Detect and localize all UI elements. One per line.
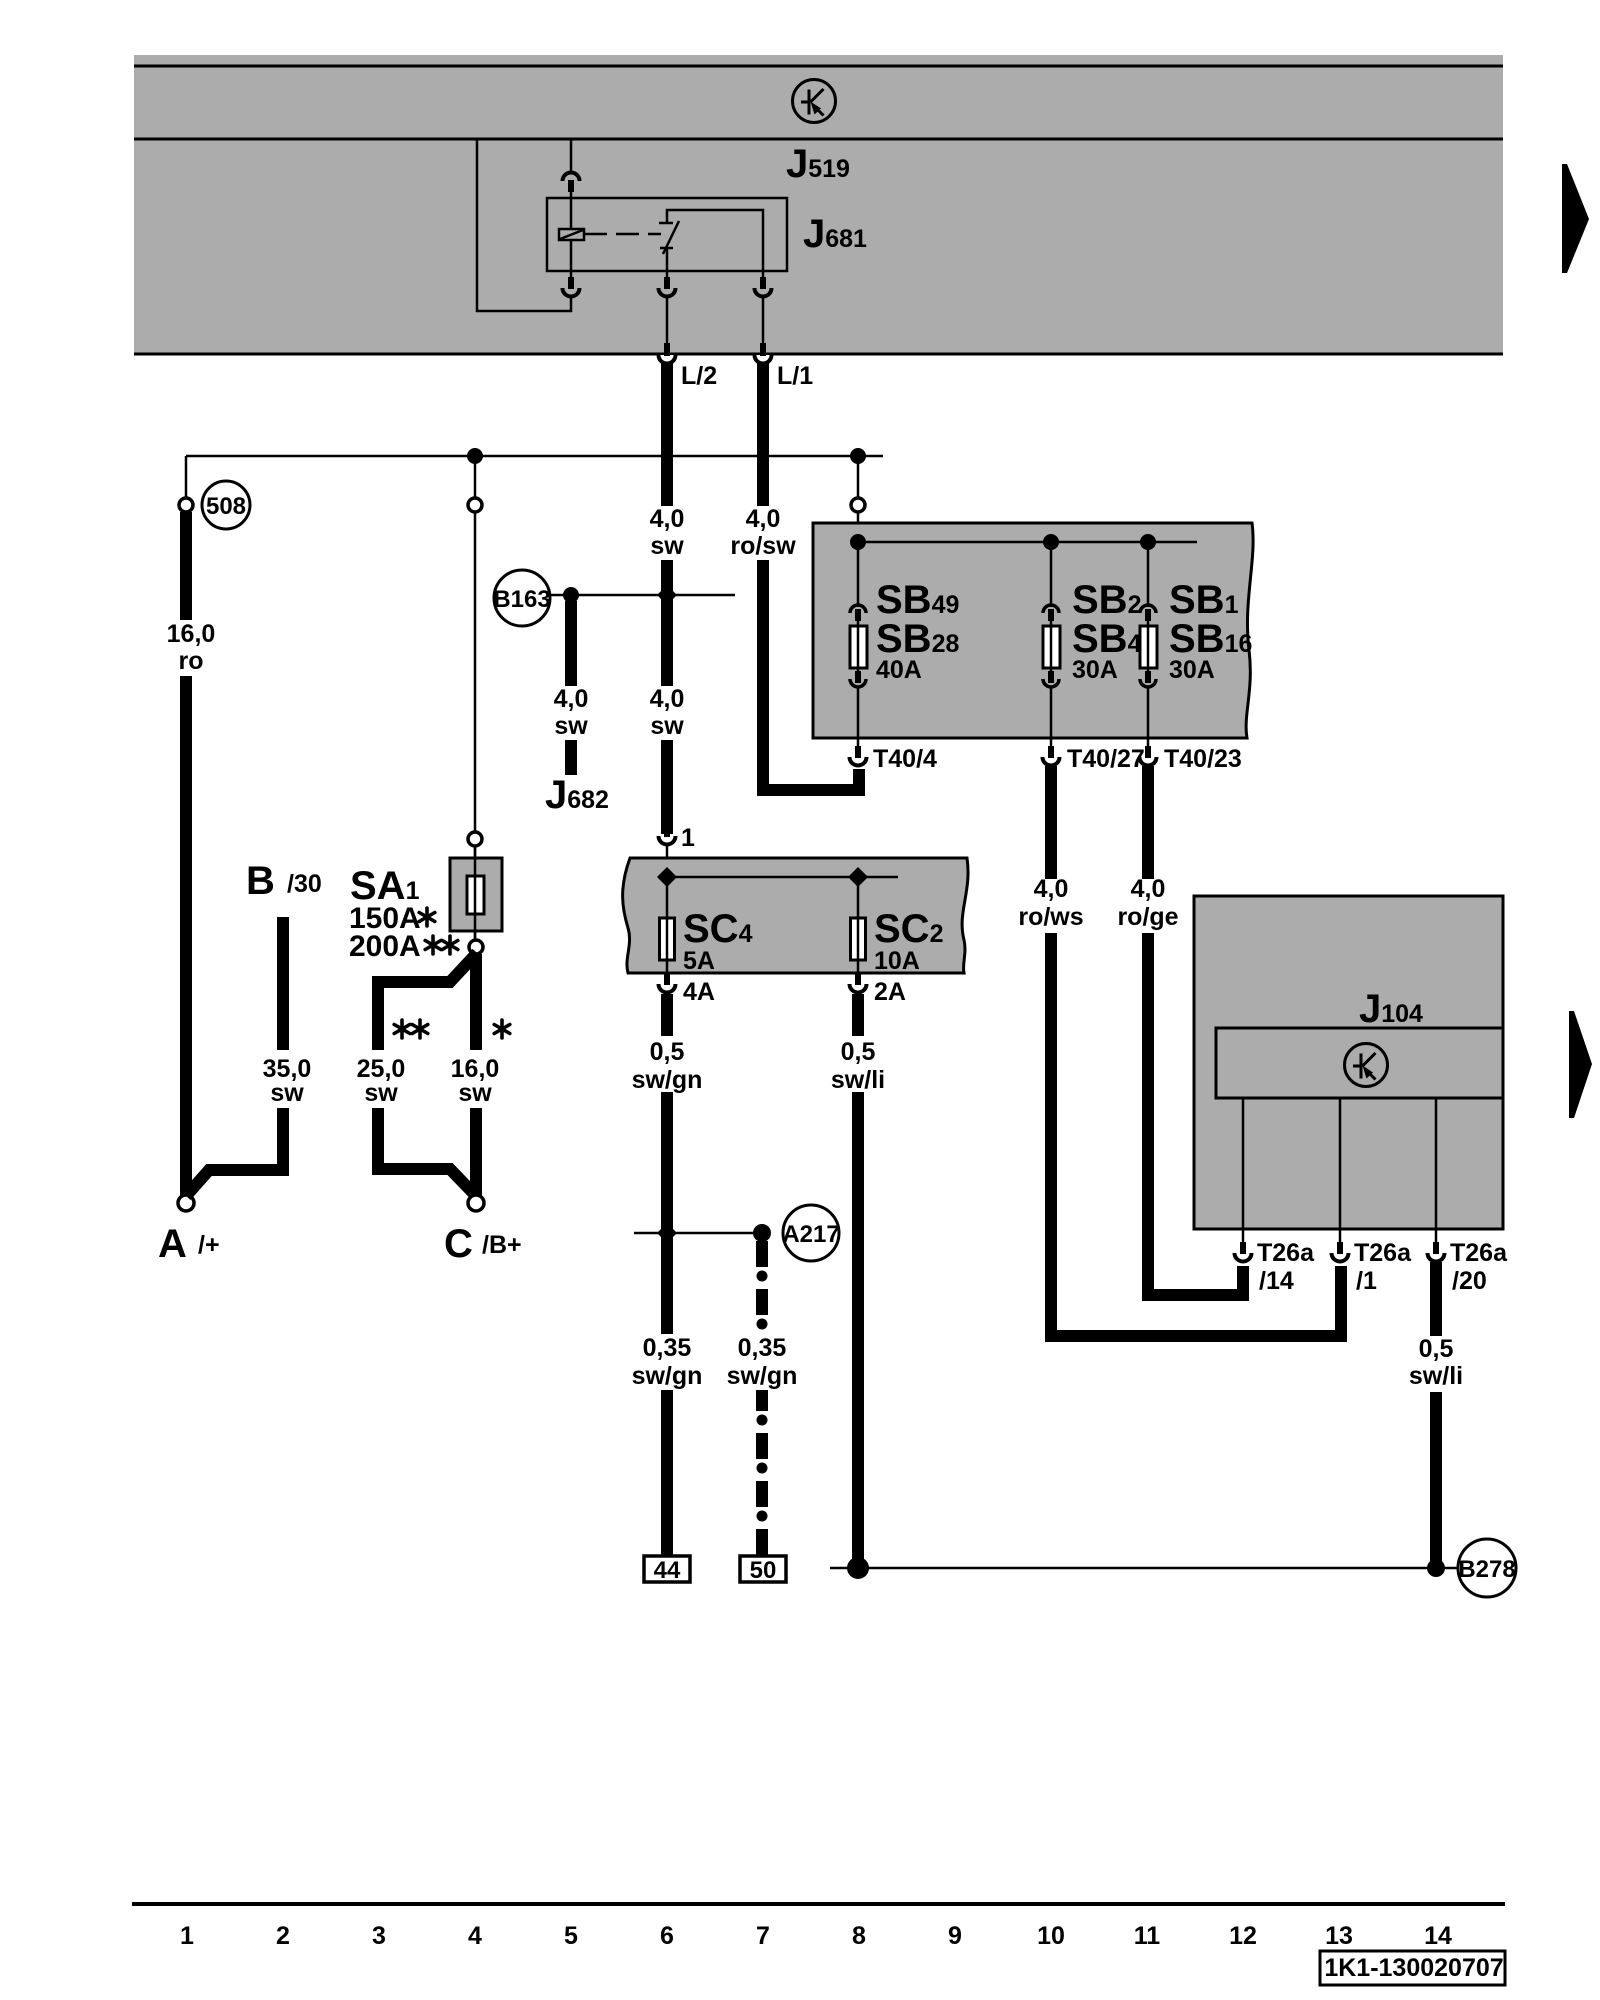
svg-text:4,0: 4,0 bbox=[650, 505, 685, 533]
diamond junction on sw/gn wire bbox=[657, 1223, 677, 1243]
svg-text:/20: /20 bbox=[1452, 1267, 1487, 1295]
svg-text:4: 4 bbox=[468, 1922, 482, 1950]
svg-text:/B+: /B+ bbox=[482, 1231, 522, 1259]
direction arrow right top bbox=[1562, 164, 1589, 273]
ground line to B278 bbox=[830, 1567, 1458, 1570]
terminal C circle bbox=[468, 1195, 484, 1211]
node 1 connector at SC box bbox=[659, 825, 676, 845]
connector T26a/20 bbox=[1435, 1229, 1438, 1242]
diagram code box bbox=[1320, 1951, 1505, 1985]
svg-text:B: B bbox=[246, 859, 275, 903]
fuse SB2/SB4 30A bbox=[1043, 542, 1060, 738]
svg-text:4A: 4A bbox=[683, 978, 715, 1006]
label 16,0 sw bbox=[445, 1050, 507, 1108]
svg-text:T26a: T26a bbox=[1450, 1239, 1508, 1267]
relay coil-switch dashed link bbox=[584, 233, 661, 236]
svg-text:sw: sw bbox=[458, 1079, 492, 1107]
svg-text:B278: B278 bbox=[1458, 1556, 1515, 1583]
svg-text:5A: 5A bbox=[683, 947, 715, 975]
svg-text:5: 5 bbox=[564, 1922, 578, 1950]
terminal box 50 bbox=[740, 1556, 786, 1582]
svg-text:A217: A217 bbox=[782, 1221, 839, 1248]
pre-fuse bus wire bbox=[186, 455, 883, 458]
label 25,0 sw bbox=[350, 1050, 412, 1108]
terminal A circle bbox=[178, 1195, 194, 1211]
svg-text:30A: 30A bbox=[1072, 656, 1118, 684]
svg-text:2A: 2A bbox=[874, 978, 906, 1006]
junction dot SB2 bbox=[1043, 534, 1059, 550]
label 4,0 ro/ge bbox=[1113, 875, 1183, 933]
coil to box bottom bbox=[570, 240, 573, 271]
svg-text:sw: sw bbox=[270, 1079, 304, 1107]
svg-text:200A: 200A bbox=[349, 930, 421, 963]
J104 inner strip bbox=[1216, 1028, 1503, 1098]
label 35,0 sw bbox=[256, 1050, 318, 1108]
label 16,0 ro bbox=[160, 620, 218, 676]
junction dot bbox=[467, 448, 483, 464]
wire: switch fixed contact loop to L/1 bbox=[667, 210, 763, 271]
svg-text:T40/27: T40/27 bbox=[1067, 745, 1145, 773]
label 4,0 sw (L/2 upper) bbox=[641, 505, 693, 560]
relay switch bbox=[659, 221, 679, 271]
wire: coil feed from band line bbox=[570, 139, 573, 172]
connector T40/23 bbox=[1147, 738, 1150, 746]
label 0,5 sw/gn bbox=[630, 1036, 704, 1094]
svg-text:sw/li: sw/li bbox=[1409, 1362, 1463, 1390]
svg-text:A: A bbox=[158, 1222, 187, 1266]
label 4,0 sw (L/2 lower) bbox=[641, 685, 693, 740]
label 0,5 sw/li bbox=[826, 1036, 892, 1094]
svg-text:40A: 40A bbox=[876, 656, 922, 684]
svg-text:1: 1 bbox=[180, 1922, 194, 1950]
svg-text:11: 11 bbox=[1134, 1922, 1161, 1950]
svg-text:9: 9 bbox=[948, 1922, 962, 1950]
wire L/2 thick (4,0 sw) bbox=[661, 362, 673, 834]
svg-text:T26a: T26a bbox=[1257, 1239, 1315, 1267]
connector T40/4 bbox=[857, 738, 860, 746]
svg-text:T26a: T26a bbox=[1354, 1239, 1412, 1267]
svg-text:sw: sw bbox=[650, 532, 684, 560]
junction dot bbox=[850, 448, 866, 464]
wire L/1 thick (4,0 ro/sw) down and to T40/4 bbox=[763, 362, 859, 790]
svg-text:sw: sw bbox=[364, 1079, 398, 1107]
connector below relay box (L/2) bbox=[666, 271, 669, 280]
open terminal circle 508 wire bbox=[179, 498, 193, 512]
label * bbox=[494, 1020, 510, 1038]
svg-text:4,0: 4,0 bbox=[650, 685, 685, 713]
fuse SC4 bbox=[666, 877, 669, 973]
svg-text:0,5: 0,5 bbox=[650, 1038, 685, 1066]
fuse box SB (gray, torn right edge) bbox=[813, 523, 1253, 738]
svg-text:sw/gn: sw/gn bbox=[632, 1066, 703, 1094]
label circle B278 bbox=[1458, 1539, 1516, 1597]
connector T26a/1 bbox=[1339, 1229, 1342, 1242]
svg-text:T40/23: T40/23 bbox=[1164, 745, 1242, 773]
dashed wire 0,35 sw/gn to 50 bbox=[756, 1241, 768, 1556]
connector T40/27 bbox=[1050, 738, 1053, 746]
label circle 508 bbox=[202, 481, 250, 529]
connector T26a/14 bbox=[1242, 1229, 1245, 1242]
fuse box SC (gray, torn edges) bbox=[623, 858, 968, 973]
fuse SA1 element bbox=[467, 876, 484, 914]
svg-text:16,0: 16,0 bbox=[167, 620, 216, 648]
svg-text:13: 13 bbox=[1325, 1922, 1353, 1950]
fuse SB1/SB16 30A bbox=[1140, 542, 1157, 738]
svg-text:sw: sw bbox=[650, 712, 684, 740]
svg-text:30A: 30A bbox=[1169, 656, 1215, 684]
svg-text:/+: /+ bbox=[198, 1231, 220, 1259]
connector below relay box (coil return) bbox=[570, 271, 573, 280]
svg-text:/30: /30 bbox=[287, 870, 322, 898]
A217 junction line bbox=[634, 1232, 760, 1235]
direction arrow right at J104 bbox=[1569, 1011, 1592, 1118]
wire 16,0 sw (*) bbox=[470, 954, 482, 1196]
svg-text:ro/ge: ro/ge bbox=[1117, 903, 1178, 931]
label circle B163 bbox=[494, 570, 550, 626]
junction dot SB49 bbox=[850, 534, 866, 550]
label 4,0 ro/sw (L/1) bbox=[730, 505, 797, 560]
junction dot sw/li bbox=[847, 1557, 869, 1579]
wire 0,5 sw/gn bbox=[661, 994, 673, 1556]
svg-text:sw: sw bbox=[554, 712, 588, 740]
diamond junction on L/2 wire bbox=[657, 585, 677, 605]
relay J681 box bbox=[547, 198, 787, 271]
svg-text:4,0: 4,0 bbox=[746, 505, 781, 533]
label 0,35 sw/gn (right) bbox=[723, 1334, 801, 1390]
diamond junction SC2 bbox=[848, 867, 868, 887]
band exit connector L/1 bbox=[755, 343, 772, 364]
svg-text:508: 508 bbox=[206, 493, 246, 520]
J104 internal leads bbox=[1242, 1098, 1245, 1229]
svg-text:0,5: 0,5 bbox=[1419, 1335, 1454, 1363]
wire 16,0 ro (battery) bbox=[180, 512, 192, 1196]
svg-text:/14: /14 bbox=[1259, 1267, 1294, 1295]
junction dot dashed wire bbox=[753, 1224, 771, 1242]
svg-text:C: C bbox=[444, 1222, 473, 1266]
svg-text:ro: ro bbox=[179, 647, 204, 675]
label 4,0 ro/ws bbox=[1016, 875, 1086, 933]
K symbol J104 bbox=[1345, 1044, 1388, 1087]
wire 4,0 ro/ge : T40/23 to T26a/14 bbox=[1148, 766, 1243, 1295]
svg-text:L/2: L/2 bbox=[681, 362, 717, 390]
band exit connector L/2 bbox=[659, 343, 676, 364]
svg-text:sw/li: sw/li bbox=[831, 1066, 885, 1094]
svg-text:0,35: 0,35 bbox=[738, 1334, 787, 1362]
fuse SA1 box bbox=[450, 858, 502, 931]
svg-text:ro/sw: ro/sw bbox=[730, 532, 796, 560]
svg-text:4,0: 4,0 bbox=[554, 685, 589, 713]
control unit band J519 (gray) bbox=[134, 55, 1503, 355]
connector coil top bbox=[563, 173, 580, 193]
track number rule bbox=[132, 1902, 1505, 1906]
svg-text:sw/gn: sw/gn bbox=[727, 1362, 798, 1390]
svg-text:sw/gn: sw/gn bbox=[632, 1362, 703, 1390]
svg-text:1K1-130020707: 1K1-130020707 bbox=[1324, 1954, 1503, 1982]
wire 25,0 sw (**) bbox=[378, 953, 477, 1197]
label 0,5 sw/li bbox=[1404, 1335, 1470, 1392]
svg-text:14: 14 bbox=[1424, 1922, 1452, 1950]
svg-text:8: 8 bbox=[852, 1922, 866, 1950]
svg-text:12: 12 bbox=[1229, 1922, 1257, 1950]
wire 35,0 sw from B/30 bbox=[186, 917, 283, 1196]
track numbers bbox=[180, 1922, 1452, 1950]
svg-text:50: 50 bbox=[750, 1557, 777, 1584]
svg-text:L/1: L/1 bbox=[777, 362, 813, 390]
junction dot J682 stub bbox=[563, 587, 579, 603]
connector 2A bbox=[850, 973, 867, 993]
wire 0,5 sw/li from T26a/20 bbox=[1430, 1262, 1442, 1566]
wire stub J682 (4,0 sw) bbox=[565, 601, 577, 775]
fuse SB49/SB28 40A bbox=[850, 542, 867, 738]
relay coil bbox=[559, 229, 584, 240]
B163 junction line bbox=[550, 594, 735, 597]
connector below relay box (L/1) bbox=[762, 271, 765, 280]
label circle A217 bbox=[783, 1205, 839, 1261]
wire 0,5 sw/li bbox=[852, 994, 864, 1566]
svg-text:/1: /1 bbox=[1356, 1267, 1377, 1295]
SB bus bbox=[858, 541, 1197, 544]
svg-text:4,0: 4,0 bbox=[1131, 875, 1166, 903]
svg-text:10: 10 bbox=[1037, 1922, 1065, 1950]
svg-text:7: 7 bbox=[756, 1922, 770, 1950]
terminal box 44 bbox=[644, 1556, 690, 1582]
svg-text:2: 2 bbox=[276, 1922, 290, 1950]
svg-text:3: 3 bbox=[372, 1922, 386, 1950]
control unit J104 box bbox=[1194, 896, 1503, 1229]
wire: coil return loop to band line bbox=[477, 139, 571, 311]
label 4,0 sw (J682) bbox=[545, 685, 597, 740]
svg-text:4,0: 4,0 bbox=[1034, 875, 1069, 903]
wire: SA1 feed from bus bbox=[474, 456, 477, 498]
svg-text:B163: B163 bbox=[493, 586, 550, 613]
svg-text:ro/ws: ro/ws bbox=[1018, 903, 1083, 931]
svg-text:0,35: 0,35 bbox=[643, 1334, 692, 1362]
junction dot right sw/li bbox=[1427, 1559, 1445, 1577]
junction dot SB1 bbox=[1140, 534, 1156, 550]
svg-text:T40/4: T40/4 bbox=[873, 745, 937, 773]
SC bus bbox=[663, 876, 898, 879]
K symbol (potential distribution) in band bbox=[793, 80, 836, 123]
svg-text:1: 1 bbox=[681, 824, 695, 852]
svg-text:44: 44 bbox=[654, 1557, 681, 1584]
wire 4,0 ro/ws : T40/27 to T26a/1 bbox=[1051, 766, 1341, 1336]
node below SA1 bbox=[469, 940, 483, 954]
label ** bbox=[394, 1020, 410, 1038]
svg-text:0,5: 0,5 bbox=[841, 1038, 876, 1066]
fuse SC2 bbox=[857, 877, 860, 973]
label 0,35 sw/gn (left) bbox=[628, 1334, 706, 1390]
svg-text:10A: 10A bbox=[874, 947, 920, 975]
diamond junction SC4 bbox=[657, 867, 677, 887]
connector 4A bbox=[659, 973, 676, 993]
svg-text:6: 6 bbox=[660, 1922, 674, 1950]
wire: SB box feed bbox=[857, 456, 860, 498]
